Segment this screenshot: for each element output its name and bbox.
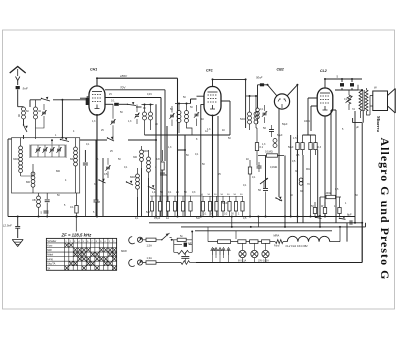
capacitor C14 12.5nF — [3, 217, 20, 239]
bandfilter box — [12, 138, 80, 193]
wire CL2 cathode — [325, 110, 336, 223]
tube CF1 — [204, 69, 221, 116]
switching table — [46, 238, 116, 270]
svg-text:0.1: 0.1 — [111, 99, 115, 103]
coil L4 — [31, 164, 35, 193]
wire CL2 grid — [303, 98, 318, 135]
svg-text:TA: TA — [213, 248, 216, 251]
bus C — [181, 223, 366, 228]
wire CH1 grid left — [80, 97, 89, 99]
svg-text:12,5nF: 12,5nF — [3, 224, 12, 228]
trimmer CT2 — [134, 105, 139, 125]
resistor R10 — [313, 202, 316, 217]
trimmer row — [35, 147, 61, 153]
trimmer CT1 — [36, 104, 47, 128]
capacitor C3 — [41, 205, 49, 215]
svg-text:0.1MΩ: 0.1MΩ — [265, 150, 273, 154]
wire speaker down — [353, 110, 364, 263]
switch S2 wave band — [41, 97, 53, 103]
svg-text:Fund: Fund — [274, 246, 280, 248]
speaker LS — [370, 86, 395, 116]
border frame — [3, 30, 395, 309]
svg-text:Lang: Lang — [47, 258, 53, 261]
wire CH1 anode rail 180V — [97, 74, 178, 217]
svg-text:0,1MΩ: 0,1MΩ — [270, 166, 277, 169]
svg-text:50μF: 50μF — [288, 146, 294, 149]
bus bottom — [196, 223, 362, 263]
svg-text:5nF: 5nF — [146, 211, 151, 214]
coil L2 — [34, 100, 38, 139]
svg-text:Kurz: Kurz — [47, 245, 53, 248]
svg-text:0.1: 0.1 — [70, 205, 74, 209]
svg-text:Schalter: Schalter — [47, 240, 56, 243]
capacitor C11 50nF — [256, 76, 264, 87]
svg-text:0,4V: 0,4V — [147, 93, 152, 96]
svg-text:180V: 180V — [120, 74, 128, 78]
resistor R16 5n — [177, 235, 186, 242]
capacitor C10 50nF — [258, 188, 268, 217]
trimmer CT4 — [194, 105, 199, 126]
svg-text:50nF: 50nF — [256, 76, 263, 80]
coil L3 — [19, 138, 23, 176]
svg-text:3000: 3000 — [13, 158, 19, 161]
svg-text:800: 800 — [56, 170, 61, 173]
svg-text:TA: TA — [47, 267, 50, 270]
resistor R14 — [181, 261, 196, 265]
svg-text:60W: 60W — [121, 249, 127, 253]
tube CH1 — [89, 68, 105, 116]
wire CF1 anode loop — [213, 79, 246, 96]
heater chain CL2 CH1 CF1 CB2 — [286, 227, 341, 248]
svg-text:CL2 CH1 CF1 CB2: CL2 CH1 CF1 CB2 — [286, 244, 309, 248]
capacitor C1 5nF antenna — [16, 81, 28, 91]
svg-text:50nF: 50nF — [222, 202, 228, 205]
svg-text:ZF = 128,5 kHz: ZF = 128,5 kHz — [61, 233, 93, 238]
wire CF1 cathode — [212, 116, 214, 217]
coil L12 — [256, 108, 260, 124]
pilot lamp LP2 — [251, 243, 258, 262]
resistor R1 — [70, 193, 78, 217]
capacitor C4 — [105, 99, 127, 106]
switch S5 — [126, 181, 133, 185]
svg-text:CF1: CF1 — [206, 69, 213, 73]
wire antenna down — [18, 90, 24, 107]
switch S8 — [98, 179, 105, 183]
AVC line — [150, 195, 203, 197]
fuse F1 1.5A — [143, 238, 162, 247]
resistor R6 tone — [346, 90, 353, 110]
coil L1 — [17, 107, 26, 119]
svg-text:8μF: 8μF — [347, 213, 352, 217]
oscillator coil L8 — [147, 150, 151, 178]
svg-text:Ukg TA: Ukg TA — [47, 263, 55, 266]
svg-text:1μF: 1μF — [188, 242, 193, 245]
svg-text:1.5: 1.5 — [293, 137, 297, 140]
svg-text:300: 300 — [133, 156, 138, 159]
resistor R13 — [178, 250, 189, 254]
switch S7 — [107, 137, 114, 141]
output transformer T3 — [358, 85, 370, 118]
coil L6 — [32, 193, 40, 217]
trimmer CT3 — [169, 106, 174, 126]
bus stubs — [231, 216, 260, 227]
svg-text:3000: 3000 — [143, 150, 149, 153]
svg-text:W: W — [374, 86, 377, 90]
wire osc junction down — [61, 100, 63, 138]
IF transformer T2 — [175, 104, 192, 136]
resistor R3 — [255, 128, 263, 165]
pilot lamp LP1 — [239, 243, 246, 262]
trimmer CT5 — [110, 104, 115, 140]
capacitor C12 — [337, 75, 345, 87]
resistor bank — [150, 196, 244, 217]
capacitor C16 — [181, 252, 189, 262]
wire left mid verticals — [80, 140, 107, 217]
svg-text:800: 800 — [70, 158, 75, 161]
wire bus to table — [75, 216, 77, 232]
misc value labels — [13, 93, 359, 220]
capacitor C5 — [160, 173, 167, 177]
svg-text:MW: MW — [47, 249, 52, 252]
svg-text:MΩ: MΩ — [306, 168, 310, 171]
socket TA arrows — [211, 248, 230, 263]
svg-text:60: 60 — [17, 113, 21, 117]
capacitor C6 — [83, 163, 88, 216]
svg-text:5nF: 5nF — [23, 86, 28, 90]
svg-text:Minerva: Minerva — [376, 116, 381, 133]
resistor R11 — [323, 202, 326, 217]
svg-text:5nF: 5nF — [196, 217, 201, 220]
resistor R15 — [218, 240, 270, 244]
wire CL2 anode top — [325, 79, 362, 90]
svg-text:19V 0,05A: 19V 0,05A — [258, 259, 269, 262]
resistor R9 100ohm — [320, 191, 341, 199]
terminal block — [86, 96, 89, 105]
bus ground — [8, 216, 355, 218]
switch S11 mains — [161, 233, 172, 241]
wire left edge — [8, 139, 12, 217]
trimmer CT6 — [105, 158, 110, 178]
resistor R4 — [258, 150, 284, 158]
svg-text:100Ω: 100Ω — [325, 191, 331, 195]
switch S10 — [315, 215, 346, 219]
svg-text:7A: 7A — [352, 108, 355, 111]
oscillator coil L10 — [248, 107, 252, 130]
mains plug P2 — [129, 259, 143, 266]
svg-text:MRA: MRA — [274, 234, 280, 238]
wire mid verticals — [128, 99, 230, 217]
capacitor C8 50nF — [263, 125, 274, 137]
switch S3 in box — [60, 138, 69, 142]
resistor bank labels — [201, 194, 244, 196]
svg-text:CB2: CB2 — [277, 68, 284, 72]
capacitor C15 1uF — [184, 242, 193, 247]
wire trimmer bus — [31, 139, 65, 157]
resistor R2 — [156, 150, 164, 217]
capacitor C9 — [257, 162, 262, 172]
wire CF1 right pin — [221, 101, 230, 135]
switch S1 — [23, 119, 28, 139]
svg-text:1A: 1A — [166, 217, 169, 220]
svg-text:2V: 2V — [109, 93, 112, 96]
resistor R8 — [309, 135, 322, 217]
svg-text:5000: 5000 — [240, 118, 246, 121]
svg-text:6V 0,1A: 6V 0,1A — [238, 259, 247, 262]
svg-text:100Ω: 100Ω — [304, 120, 310, 123]
bus D — [195, 230, 332, 232]
oscillator coil L11 — [254, 107, 258, 128]
svg-text:4.8: 4.8 — [156, 157, 160, 161]
wire CB2 arms — [258, 85, 298, 108]
coil L13 — [295, 170, 303, 185]
svg-text:UB: UB — [32, 198, 36, 202]
wire band switch top — [30, 99, 88, 107]
resistor R7 — [293, 135, 304, 217]
capacitor C17 8uF — [347, 213, 352, 225]
resistor R12 — [338, 197, 341, 217]
IF transformer T1 — [142, 105, 154, 136]
wire osc top — [246, 96, 256, 107]
svg-text:1,3A: 1,3A — [147, 256, 153, 260]
wire CH1 g3 rail — [105, 98, 161, 217]
jack J1 — [273, 139, 277, 148]
wire CH1 screen rail 70V — [105, 86, 165, 162]
power RC network — [171, 231, 194, 253]
oscillator coil L7 — [140, 146, 144, 168]
svg-text:0.3: 0.3 — [318, 146, 322, 149]
wire box internals — [21, 140, 66, 176]
resistor R5 — [248, 160, 251, 217]
wire left col2 — [18, 90, 30, 100]
svg-text:50μF: 50μF — [282, 123, 288, 126]
svg-text:1A: 1A — [279, 198, 282, 202]
fuse F2 1.3A — [143, 256, 181, 264]
trimmer CT7 — [262, 105, 267, 123]
wire CB2 area verticals — [218, 85, 347, 242]
ground — [12, 240, 23, 247]
potentiometer P1 volume — [260, 178, 268, 188]
svg-text:50μF: 50μF — [277, 134, 283, 137]
capacitor C13 — [350, 83, 354, 86]
svg-text:1,5A: 1,5A — [147, 243, 153, 247]
pilot lamp LP3 — [238, 243, 269, 262]
svg-text:8000: 8000 — [130, 176, 136, 179]
mains plug P1 — [121, 237, 143, 253]
wire drops — [138, 99, 197, 217]
tube CL2 — [317, 69, 333, 116]
coil L5 — [74, 138, 78, 193]
wire heater line — [208, 227, 288, 242]
resistor MRA — [274, 234, 284, 248]
wire CH1 cathode down — [96, 115, 98, 217]
svg-text:CH1: CH1 — [90, 68, 97, 72]
junction dots extra — [61, 77, 363, 228]
switch S6 — [148, 185, 155, 189]
switch S9 1A — [275, 197, 282, 202]
oscillator coil L9 — [136, 168, 140, 197]
capacitor C7 — [94, 200, 101, 204]
bus B — [149, 222, 362, 224]
svg-text:CL2: CL2 — [320, 69, 327, 73]
tube CB2 — [274, 68, 289, 110]
svg-text:0,1μF: 0,1μF — [154, 217, 161, 220]
svg-text:800: 800 — [26, 181, 31, 184]
switch S4 — [127, 102, 142, 107]
svg-text:Mittel: Mittel — [47, 254, 53, 257]
svg-text:Allegro G und Presto G: Allegro G und Presto G — [378, 138, 392, 281]
wire CF1 grid left — [197, 96, 205, 216]
antenna — [10, 67, 26, 81]
capacitor C2 — [45, 193, 50, 217]
